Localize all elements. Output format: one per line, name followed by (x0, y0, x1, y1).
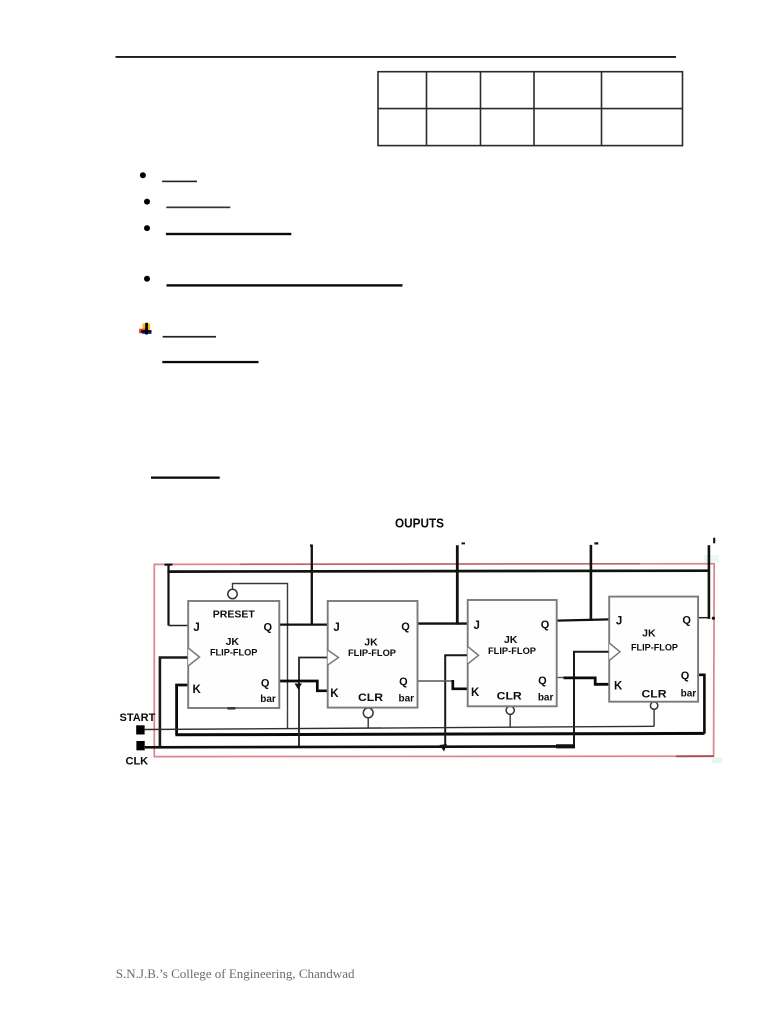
svg-text:J: J (333, 622, 339, 634)
svg-text:OUPUTS: OUPUTS (395, 516, 444, 531)
colored marker icon (139, 323, 151, 335)
underline 1 (162, 181, 197, 183)
wire K1 input (177, 685, 189, 735)
svg-text:K: K (330, 688, 339, 700)
clk rail (145, 745, 575, 749)
flip-flop U2 box (328, 601, 418, 708)
svg-text:FLIP-FLOP: FLIP-FLOP (210, 648, 258, 659)
red border rectangle (154, 564, 714, 757)
svg-text:Q: Q (541, 619, 550, 631)
svg-text:JK: JK (226, 636, 240, 648)
svg-text:FLIP-FLOP: FLIP-FLOP (631, 643, 679, 654)
svg-text:K: K (471, 687, 480, 699)
footer text (116, 966, 355, 981)
svg-text:CLR: CLR (358, 692, 383, 704)
U2 clock chevron (328, 650, 339, 665)
wire Qbar3 to K4 (557, 678, 610, 685)
svg-text:bar: bar (538, 693, 554, 704)
wire Q2 to J3 (418, 622, 468, 624)
wire J1 input (169, 625, 189, 627)
U2 labels (330, 621, 414, 704)
wire clock2 (299, 658, 328, 747)
svg-text:JK: JK (642, 628, 656, 640)
preset bubble (228, 589, 237, 598)
svg-text:Q: Q (681, 670, 690, 682)
header table (2 rows x 5 cols) (378, 72, 683, 146)
underline 3 (166, 233, 291, 235)
U3 labels (471, 619, 554, 703)
svg-text:PRESET: PRESET (213, 609, 256, 621)
red border dark segment bottom right (676, 755, 714, 757)
wire Qbar4 vertical (698, 675, 706, 734)
output tap 1 (310, 545, 313, 626)
svg-text:bar: bar (399, 694, 415, 705)
START input square (136, 725, 144, 734)
CLK label (126, 755, 149, 767)
bullet 2 (144, 199, 150, 205)
underline 5 (163, 336, 216, 338)
junction blob clock3 foot (440, 744, 448, 752)
bullet 1 (140, 172, 146, 178)
nub on U1 bottom edge (227, 707, 235, 710)
tap 4 tick (713, 538, 715, 544)
bullet 4 (144, 276, 150, 282)
start/preset/clear rail (145, 726, 654, 729)
CLR bubble FF2 (363, 708, 373, 728)
U4 clock chevron (609, 643, 620, 661)
underline 4 (167, 284, 403, 286)
junction dot on red border at Q4 (712, 617, 715, 620)
wire Q3 to J4 (557, 619, 610, 620)
underline 6 (162, 361, 258, 363)
U4 labels (614, 615, 696, 701)
output tap 4 (708, 545, 711, 619)
bottom feedback rail (Qbar4 to K1) (175, 733, 704, 734)
top horizontal rule (116, 56, 677, 58)
preset bubble stem wire (233, 584, 288, 730)
CLK input square (136, 741, 144, 750)
svg-text:Q: Q (264, 622, 273, 634)
CLR bubble FF3 (506, 706, 514, 727)
wire clock3 (445, 655, 468, 747)
red border dark segment top (240, 563, 640, 565)
flip-flop U1 box (188, 601, 279, 708)
svg-text:J: J (473, 620, 479, 632)
wire Qbar2 to K3 (418, 680, 468, 689)
svg-text:FLIP-FLOP: FLIP-FLOP (348, 648, 397, 659)
START label (120, 712, 156, 724)
svg-text:CLK: CLK (126, 755, 149, 767)
svg-text:CLR: CLR (642, 689, 667, 701)
junction blob clock2 crossing (295, 684, 303, 690)
U3 clock chevron (468, 647, 479, 665)
output tap 2 (456, 545, 459, 624)
wire clock1 (160, 658, 189, 748)
svg-text:bar: bar (681, 689, 697, 700)
tap 3 tick (594, 542, 598, 544)
svg-text:Q: Q (399, 676, 408, 688)
underline 2 (166, 207, 230, 209)
svg-text:JK: JK (364, 637, 378, 649)
U1 clock chevron (188, 648, 199, 666)
wire J1 vertical drop (167, 564, 169, 626)
underline 7 (151, 477, 220, 479)
U1 labels (192, 609, 275, 705)
svg-text:JK: JK (504, 634, 518, 646)
bullet 3 (144, 225, 150, 231)
cyan smudge bottom right (712, 758, 722, 764)
svg-text:START: START (120, 712, 156, 724)
svg-text:J: J (616, 616, 622, 628)
svg-text:K: K (614, 681, 623, 693)
svg-text:Q: Q (261, 678, 270, 690)
svg-text:K: K (192, 684, 201, 696)
CLR bubble FF4 (650, 702, 657, 727)
svg-text:CLR: CLR (497, 691, 522, 703)
top feedback rail (Q4 to J1) (167, 569, 708, 573)
wire Q1 to J2 (279, 623, 327, 625)
svg-text:Q: Q (538, 675, 547, 687)
svg-text:J: J (193, 622, 199, 634)
cyan smudge top right (704, 555, 719, 563)
output tap 3 (590, 545, 593, 621)
tap 2 tick (462, 542, 466, 544)
junction blob clock4 foot (556, 744, 575, 748)
wire clock4 (574, 652, 609, 747)
svg-text:Q: Q (682, 615, 691, 627)
flip-flop U3 box (468, 600, 557, 706)
wire Qbar1 to K2 (279, 681, 327, 691)
OUPUTS label (395, 516, 444, 531)
wire Q4 output (698, 617, 710, 619)
node T mark on red line (164, 563, 172, 565)
svg-text:S.N.J.B.’s College of Engineer: S.N.J.B.’s College of Engineering, Chand… (116, 966, 355, 981)
svg-text:bar: bar (260, 694, 276, 705)
svg-text:Q: Q (401, 621, 410, 633)
svg-text:FLIP-FLOP: FLIP-FLOP (488, 646, 537, 657)
flip-flop U4 box (609, 597, 698, 702)
